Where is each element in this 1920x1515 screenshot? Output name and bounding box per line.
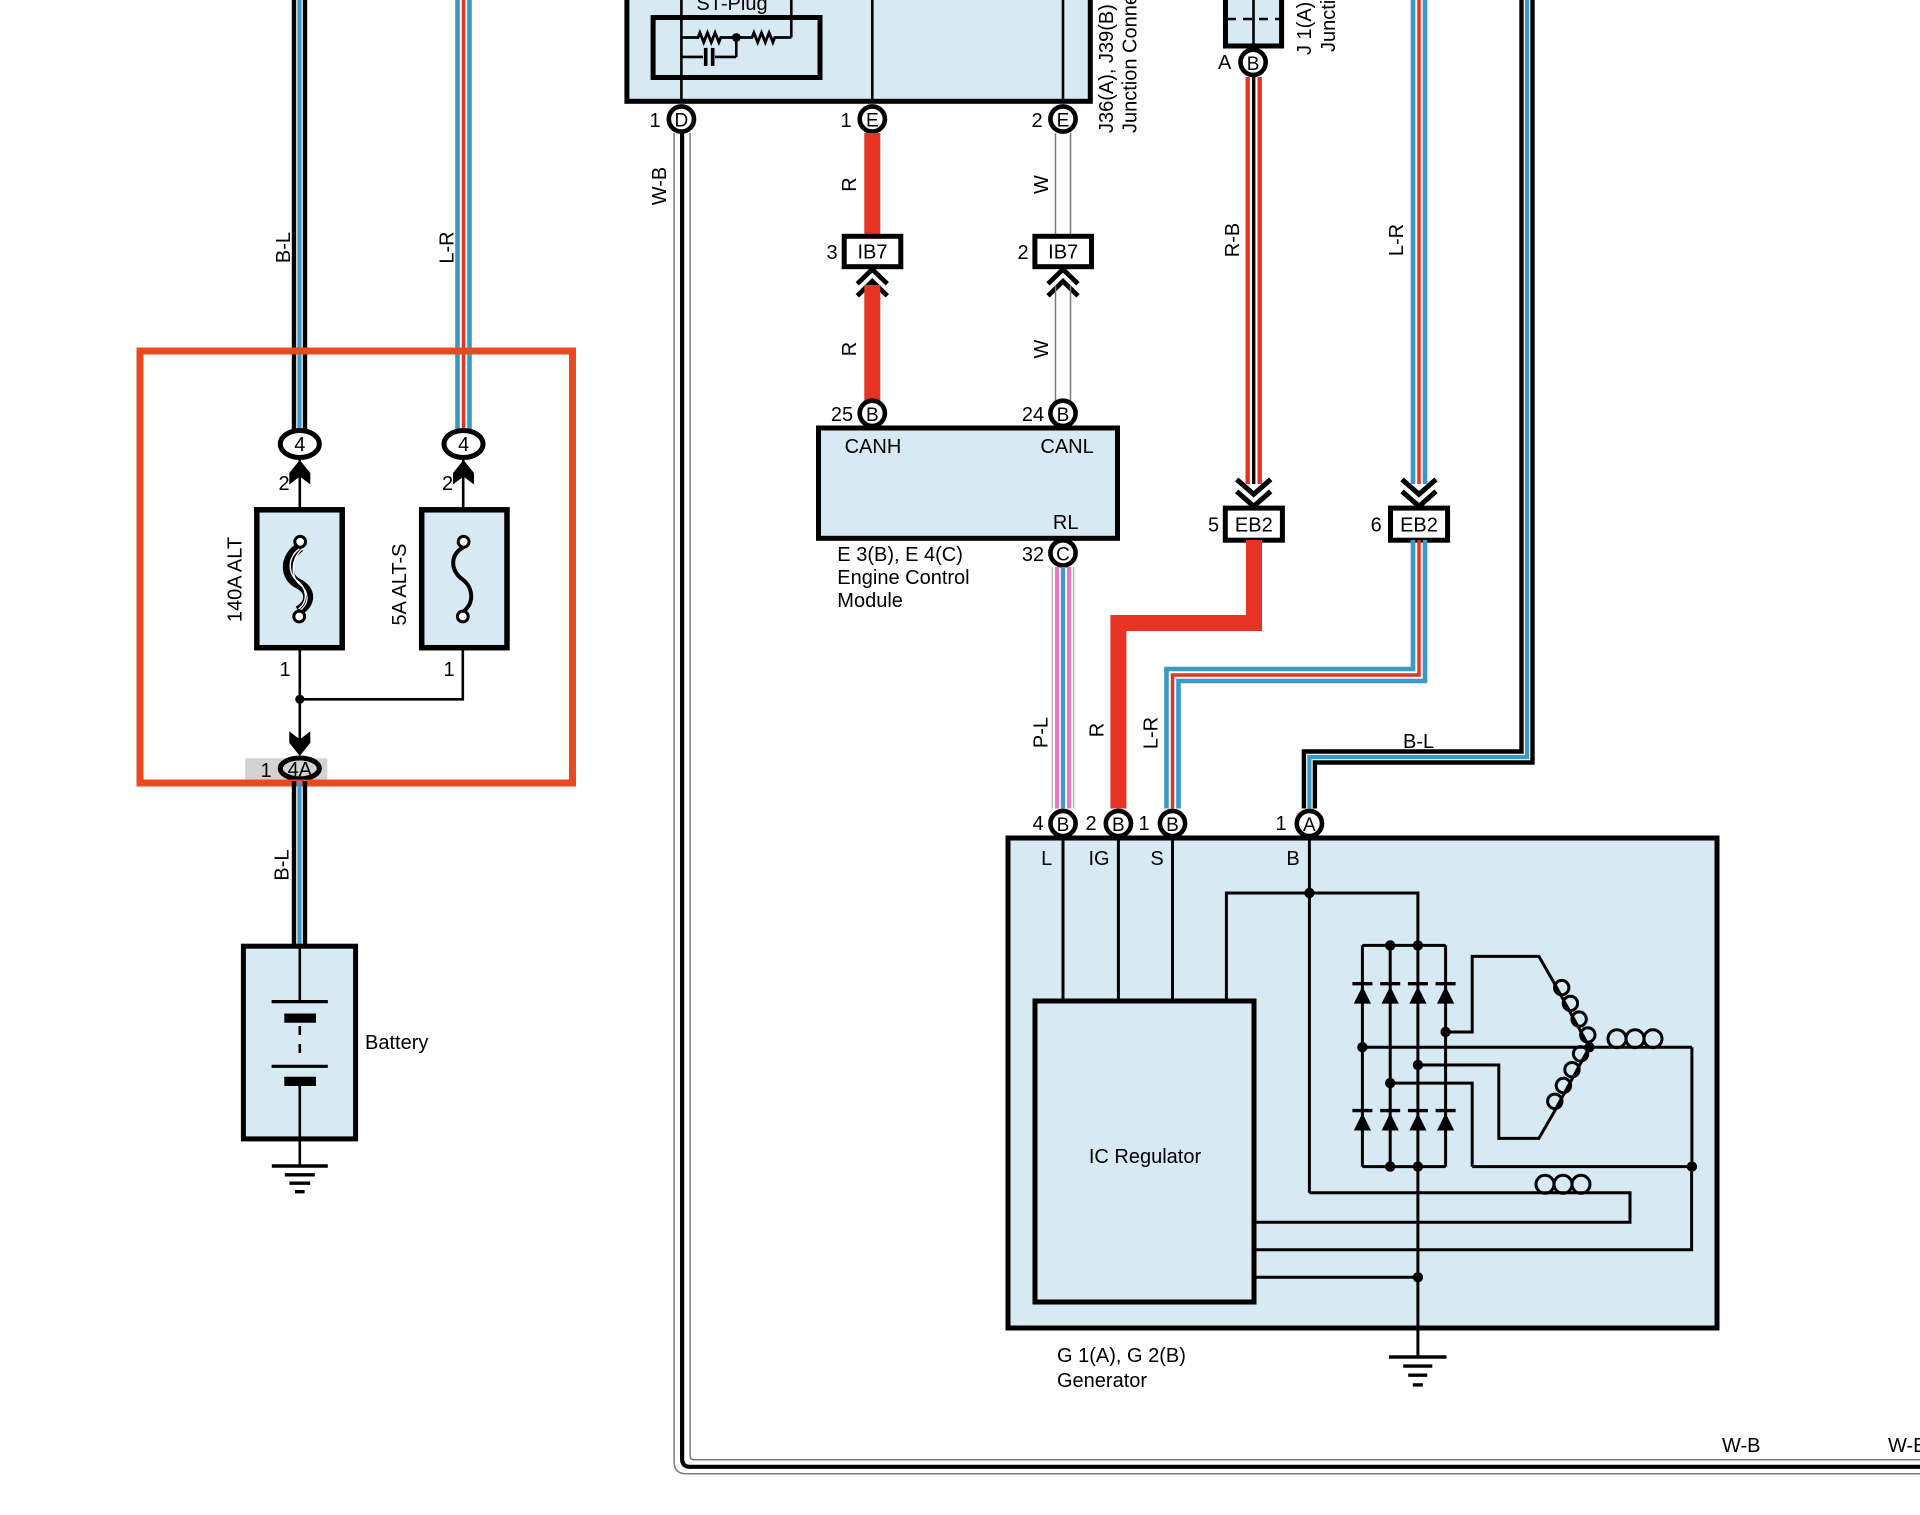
svg-text:IC Regulator: IC Regulator: [1089, 1146, 1202, 1168]
node col3 tap: [1413, 1060, 1423, 1070]
connector oval 4 (5A ALT-S): [444, 431, 483, 458]
svg-text:W-B: W-B: [1888, 1435, 1920, 1457]
wire: B branch to regulator and rectifier: [1226, 893, 1418, 1001]
svg-text:W-B: W-B: [649, 167, 671, 206]
wire: rectifier column 4: [1444, 945, 1447, 1166]
node: resistor center tap: [732, 33, 741, 42]
svg-text:5: 5: [1208, 515, 1219, 537]
battery plate + (long) 2: [272, 1065, 328, 1068]
svg-text:J36(A), J39(B): J36(A), J39(B): [1096, 4, 1118, 133]
svg-text:EB2: EB2: [1400, 515, 1438, 537]
ground (generator): [1389, 1357, 1447, 1385]
wire: phase 2 to lower dot: [1690, 1047, 1693, 1166]
connector oval 4 (140A ALT): [280, 431, 319, 458]
wire: stator Y horizontal: [1362, 1046, 1589, 1049]
wire: E2 lead inside junction box: [1062, 0, 1065, 101]
svg-text:1: 1: [443, 659, 454, 681]
orange highlight box: [140, 351, 573, 783]
wire W from IB7 to ECM pin 24: [1056, 285, 1071, 408]
wire: phase terminal from col2: [1390, 1083, 1472, 1167]
node on B lead: [1304, 888, 1314, 898]
wire: lead into 5A fuse: [462, 459, 465, 541]
svg-text:5A ALT-S: 5A ALT-S: [389, 544, 411, 626]
arrow up into oval 4 (5A): [453, 460, 474, 485]
resistor R2: [736, 33, 791, 43]
arrow down into 4A connector: [289, 731, 310, 756]
connector J1 pin A B: [1218, 50, 1266, 75]
wire: lead into 140A fuse: [298, 459, 301, 541]
wire R from IB7 to ECM pin 25: [864, 285, 880, 408]
svg-text:25: 25: [831, 404, 853, 426]
svg-text:Junction Connector: Junction Connector: [1318, 0, 1340, 52]
battery plate - (thick short) 2: [284, 1077, 316, 1086]
connector IB7 pin 3: [826, 236, 900, 266]
svg-text:24: 24: [1022, 404, 1044, 426]
junction chevrons above EB2-6: [1402, 479, 1436, 506]
svg-text:1: 1: [1138, 813, 1149, 835]
connector oval 4A: [280, 758, 319, 781]
connector E pin 1: [840, 106, 884, 132]
svg-text:6: 6: [1371, 515, 1382, 537]
svg-text:W-B: W-B: [1722, 1435, 1761, 1457]
node col2 tap: [1385, 1078, 1395, 1088]
wire W from E2 to IB7: [1056, 133, 1071, 236]
wire: 5A fuse output lead with corner: [300, 647, 463, 700]
wire W-B from connector D down and along bottom to right edge: [674, 133, 1920, 1474]
svg-text:1: 1: [1275, 813, 1286, 835]
fuse 140A ALT: [257, 510, 342, 648]
battery plate + (long): [272, 1000, 328, 1003]
svg-text:CANH: CANH: [845, 436, 902, 458]
diode D4: [1436, 984, 1456, 1004]
wire: ground rail: [1416, 1167, 1419, 1357]
svg-text:E: E: [1057, 111, 1070, 132]
svg-text:1: 1: [260, 760, 271, 782]
label E 3(B), E 4(C) Engine Control Module: [837, 544, 969, 612]
diode D6: [1380, 1111, 1400, 1131]
label J36(A), J39(B) Junction Connector (rotated): [1096, 0, 1142, 133]
connector EB2 pin 6: [1371, 508, 1448, 540]
junction chevrons above EB2-5: [1237, 479, 1271, 506]
junction connector J36(A), J39(B) box: [627, 0, 1090, 101]
wire: regulator to phase2 dot: [1254, 1167, 1692, 1250]
svg-text:2: 2: [1031, 110, 1042, 132]
wire: rectifier column 1: [1361, 945, 1364, 1166]
capacitor C1: [681, 39, 736, 66]
node Y center: [1584, 1042, 1594, 1052]
svg-text:RL: RL: [1053, 512, 1079, 534]
wire B-L from top right to generator A pin: [1304, 0, 1533, 809]
svg-text:B: B: [1112, 815, 1125, 836]
wire: S lead: [1171, 840, 1174, 1001]
diode D2: [1380, 984, 1400, 1004]
svg-text:B-L: B-L: [1403, 731, 1434, 753]
wire R (thick) from EB2-5 to generator IG pin: [1118, 540, 1254, 809]
diode D8: [1436, 1111, 1456, 1131]
svg-text:Battery: Battery: [365, 1032, 428, 1054]
svg-text:A: A: [1218, 52, 1232, 74]
svg-text:IB7: IB7: [857, 242, 887, 264]
wire: rectifier column 3: [1416, 945, 1419, 1166]
wire: regulator to ground rail: [1254, 1276, 1418, 1279]
svg-text:Generator: Generator: [1057, 1370, 1147, 1392]
wire: L lead: [1062, 840, 1065, 1001]
ST-Plug sub-box: [681, 0, 791, 101]
node bottom bus col3: [1413, 1161, 1423, 1171]
svg-text:L-R: L-R: [1141, 717, 1163, 749]
svg-text:2: 2: [442, 473, 453, 495]
wire L-R from top to EB2 pin 6: [1413, 0, 1425, 484]
diode D7: [1408, 1111, 1428, 1131]
ground (battery): [272, 1166, 328, 1192]
wire: phase 3 (lower) from col3: [1418, 1065, 1553, 1138]
wire L-R from top left to fuse connector: [458, 0, 470, 429]
wire P-L from ECM 32 C to generator pin 4 B: [1052, 567, 1073, 809]
node top bus col2: [1385, 940, 1395, 950]
svg-text:E 3(B), E 4(C): E 3(B), E 4(C): [837, 544, 963, 566]
svg-text:B: B: [1247, 54, 1260, 75]
wire B-L from 4A to battery: [294, 781, 305, 948]
svg-text:R: R: [839, 177, 861, 191]
svg-text:Junction Connector: Junction Connector: [1120, 0, 1142, 133]
svg-text:L-R: L-R: [1386, 224, 1408, 256]
svg-text:ST-Plug: ST-Plug: [696, 0, 767, 15]
svg-text:J 1(A),: J 1(A),: [1294, 0, 1316, 55]
battery box: [243, 946, 355, 1166]
ST-Plug resistor network box: [653, 18, 820, 78]
connector ECM pin 25 B: [831, 401, 885, 426]
svg-text:1: 1: [840, 110, 851, 132]
svg-text:2: 2: [1085, 813, 1096, 835]
svg-text:W: W: [1031, 339, 1053, 358]
label G 1(A), G 2(B) Generator: [1057, 1345, 1186, 1392]
node phase 2 lower: [1687, 1161, 1697, 1171]
svg-text:B: B: [866, 405, 879, 426]
svg-text:P-L: P-L: [1031, 717, 1053, 748]
wire: bus segment to phase 2 dot: [1472, 1165, 1692, 1168]
ECM box E 3(B), E 4(C) Engine Control Module: [819, 428, 1118, 538]
fuse 5A ALT-S: [422, 510, 507, 648]
connector ECM pin 32 C: [1022, 540, 1076, 566]
node regulator ground: [1413, 1272, 1423, 1282]
battery dashed center: [298, 1026, 301, 1062]
svg-text:R: R: [1087, 723, 1109, 737]
resistor R1: [681, 33, 736, 43]
svg-text:G 1(A), G 2(B): G 1(A), G 2(B): [1057, 1345, 1186, 1367]
node bottom bus col2: [1385, 1161, 1395, 1171]
svg-text:IG: IG: [1088, 848, 1109, 870]
svg-text:S: S: [1150, 848, 1163, 870]
wire L-R from EB2-6 to generator S pin: [1167, 540, 1426, 809]
svg-text:B: B: [1057, 405, 1070, 426]
svg-text:A: A: [1303, 815, 1316, 836]
svg-text:B: B: [1057, 815, 1070, 836]
svg-text:W: W: [1031, 175, 1053, 194]
gray highlight behind 4A connector: [245, 758, 327, 779]
label J 1(A), Junction Connector (rotated): [1294, 0, 1340, 55]
svg-text:Module: Module: [837, 590, 903, 612]
diode D1: [1352, 984, 1372, 1004]
svg-text:B: B: [1166, 815, 1179, 836]
svg-text:E: E: [866, 111, 879, 132]
node col4 tap: [1440, 1027, 1450, 1037]
connector ECM pin 24 B: [1022, 401, 1076, 426]
svg-text:B-L: B-L: [272, 849, 294, 880]
connector generator pin 2 B (IG): [1085, 811, 1131, 836]
svg-text:1: 1: [649, 110, 660, 132]
coil: stator phase 1: [1553, 980, 1595, 1047]
coil: stator phase 2 (middle): [1589, 1030, 1692, 1048]
svg-text:4: 4: [1032, 813, 1043, 835]
svg-text:Engine Control: Engine Control: [837, 567, 969, 589]
wire: rectifier column 2: [1389, 945, 1392, 1166]
node: fuse output junction: [295, 695, 304, 704]
svg-text:C: C: [1056, 544, 1070, 565]
diode D5: [1352, 1111, 1372, 1131]
wire: rectifier bottom bus: [1362, 1165, 1445, 1168]
svg-text:32: 32: [1022, 544, 1044, 566]
svg-text:L: L: [1041, 848, 1052, 870]
connector generator pin 1 A (B): [1275, 811, 1322, 836]
wire R-B from J1 B to EB2 pin 5: [1248, 77, 1260, 484]
wire B-L from top left to fuse connector: [294, 0, 305, 429]
wire: phase 1 (top) from col4: [1446, 956, 1553, 1032]
wire R from E1 to IB7: [864, 133, 880, 236]
coil: field winding: [1254, 1175, 1630, 1222]
wire: 140A fuse output lead: [298, 647, 301, 740]
svg-text:CANL: CANL: [1040, 436, 1093, 458]
connector D pin 1: [649, 106, 694, 132]
coil: stator phase 3: [1548, 1047, 1590, 1114]
svg-text:2: 2: [1017, 242, 1028, 264]
diode D3: [1408, 984, 1428, 1004]
svg-text:140A ALT: 140A ALT: [225, 537, 247, 622]
svg-text:B: B: [1286, 848, 1299, 870]
connector E pin 2: [1031, 106, 1075, 132]
node top bus col3: [1413, 940, 1423, 950]
svg-text:1: 1: [279, 659, 290, 681]
svg-text:IB7: IB7: [1048, 242, 1078, 264]
connector generator pin 1 B (S): [1138, 811, 1185, 836]
generator pin labels L IG S B: [1041, 848, 1300, 870]
wire: E1 lead inside junction box: [871, 0, 874, 101]
svg-text:EB2: EB2: [1235, 515, 1273, 537]
svg-text:2: 2: [278, 473, 289, 495]
svg-text:B-L: B-L: [273, 232, 295, 263]
connector IB7 pin 2: [1017, 236, 1091, 266]
svg-text:R-B: R-B: [1222, 223, 1244, 257]
junction connector J 1(A) box: [1226, 0, 1282, 46]
wire: IG lead: [1117, 840, 1120, 1001]
junction chevrons below IB7-3: [857, 269, 887, 296]
svg-text:R: R: [839, 342, 861, 356]
connector generator pin 4 B (L): [1032, 811, 1075, 836]
arrow up into oval 4 (140A): [289, 460, 310, 485]
IC Regulator box: [1035, 1001, 1254, 1302]
wire: B lead down to field: [1308, 840, 1311, 1193]
battery plate - (thick short): [284, 1013, 316, 1022]
svg-text:D: D: [675, 111, 689, 132]
svg-text:4: 4: [458, 434, 469, 456]
generator box G 1(A), G 2(B): [1008, 838, 1717, 1328]
node col1 tap: [1357, 1042, 1367, 1052]
junction chevrons below IB7-2: [1048, 269, 1078, 296]
svg-text:4A: 4A: [288, 759, 313, 781]
svg-text:4: 4: [294, 434, 305, 456]
wire: rectifier top bus: [1362, 944, 1445, 947]
svg-text:L-R: L-R: [437, 231, 459, 263]
connector EB2 pin 5: [1208, 508, 1282, 540]
svg-text:3: 3: [826, 242, 837, 264]
